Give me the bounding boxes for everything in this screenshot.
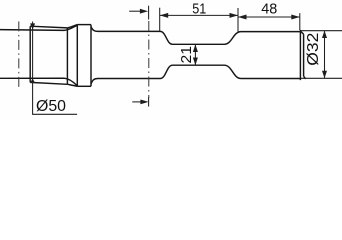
wire chamfer bottom diagonal (304, 76, 306, 79)
wire cone top edge (67, 25, 77, 28)
wire cone bottom edge (67, 84, 77, 86)
wire extension line left of 51 (159, 8, 161, 32)
wire dimension line 21 (194, 44, 196, 65)
wire shank bottom edge (0, 78, 77, 86)
wire top extension line diameter 32 (301, 30, 342, 32)
wire shank top edge (0, 25, 77, 30)
wire shaft top with neck (98, 31, 300, 44)
wire dimension line 48 (238, 16, 300, 18)
wire centerline solid segment top (148, 6, 150, 20)
wire shaft bottom with neck (98, 65, 300, 78)
node arrow 51 left (160, 13, 169, 18)
wire collar left face (76, 25, 78, 87)
node arrow 21 bottom (193, 58, 198, 66)
wire top leader line to centerline (129, 10, 143, 12)
svg-text:Ø50: Ø50 (36, 98, 66, 115)
svg-text:Ø32: Ø32 (305, 33, 322, 66)
wire dimension leader diameter 50 (33, 22, 78, 115)
node arrow 48 right (291, 15, 300, 20)
node arrow 48 left (238, 15, 247, 20)
wire collar top edge (77, 24, 91, 26)
wire right end face (299, 30, 301, 80)
svg-text:48: 48 (261, 1, 277, 18)
node arrow diameter 32 top (322, 31, 327, 39)
wire dimension line diameter 32 (324, 31, 326, 79)
wire chamfer top diagonal (301, 31, 304, 34)
wire block-collar transition edge (66, 28, 68, 84)
wire block top edge (30, 26, 67, 28)
wire block bottom edge (30, 82, 67, 84)
node arrow 21 top (193, 44, 198, 52)
wire collar bottom edge (77, 85, 91, 87)
wire shared extension line 51/48 (237, 8, 239, 32)
wire dimension line 51 (160, 14, 238, 16)
wire fillet collar to shaft bottom (91, 79, 98, 85)
wire centerline solid segment bottom (148, 97, 150, 107)
wire fillet collar to shaft top (91, 27, 98, 32)
wire block left face (29, 26, 31, 82)
node arrow leader right (140, 100, 148, 105)
node arrow diameter 50 top (30, 23, 35, 29)
svg-text:51: 51 (192, 1, 206, 18)
node arrow diameter 50 bottom (30, 78, 35, 83)
node arrow diameter 32 bottom (322, 71, 327, 79)
wire bottom extension line diameter 32 (301, 77, 342, 79)
wire chamfer edge vertical (303, 34, 305, 76)
node centerline middle (148, 21, 150, 98)
svg-text:21: 21 (178, 46, 195, 64)
wire collar right face (90, 25, 92, 87)
wire leader line to centerline (132, 101, 146, 103)
node arrow 51 right (230, 13, 239, 18)
node centerline left (18, 21, 20, 87)
node arrow top leader right (140, 9, 148, 14)
wire extension line right of 48 (299, 13, 301, 30)
